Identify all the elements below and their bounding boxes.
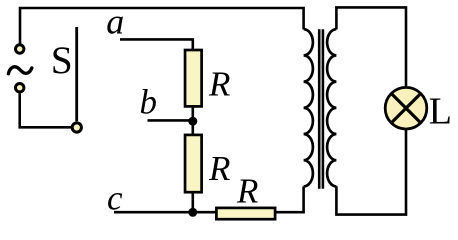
node c junction dot [188,208,197,217]
svg-text:R: R [236,172,258,211]
wire: node b to resistor R2 [192,121,195,135]
AC source terminal top circle [16,45,24,53]
svg-text:R: R [208,149,230,188]
svg-text:S: S [51,38,73,82]
svg-text:L: L [429,91,452,133]
node b junction dot [188,117,197,126]
wire: R1 bottom to node b [192,106,195,121]
svg-text:a: a [106,2,124,42]
wire: R2 bottom to node c [192,192,195,212]
AC source tilde [8,67,31,74]
resistor R3 (horizontal) [216,208,275,219]
transformer core line left [318,29,321,189]
svg-text:b: b [140,83,158,122]
resistor R2 (vertical) [185,135,202,192]
transformer core line right [322,29,325,189]
wire: source bottom to switch contact [20,93,71,127]
switch S lever (open) [75,27,78,121]
wire: terminal c to resistor R3 [114,211,217,214]
wire: secondary top to lamp [336,7,406,86]
lamp L cross [391,94,420,123]
wire: terminal a to resistor R1 [120,39,193,49]
lamp L circle [385,87,427,129]
wire: lamp bottom to secondary bottom [336,130,406,215]
resistor R1 (vertical) [185,50,202,106]
switch S contact circle [72,123,81,132]
wire: top bus from source corner to transformer primary [20,8,304,44]
AC source terminal bottom circle [16,84,24,92]
transformer primary winding (6 arcs) [304,29,313,186]
transformer secondary winding (6 arcs) [327,29,336,186]
svg-text:R: R [208,64,230,103]
wire: R3 to transformer primary bottom [275,186,304,212]
wire: terminal b to node b [148,119,193,122]
